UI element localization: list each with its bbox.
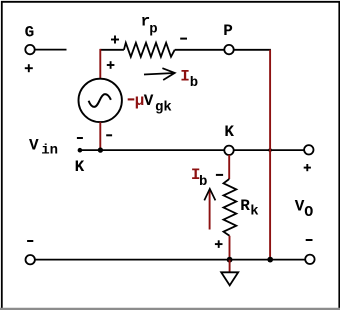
current arrow Ib (up, red shaft) — [204, 189, 215, 230]
resistor Rk zigzag — [224, 179, 237, 236]
polarity - below source — [106, 134, 112, 136]
terminal Vo+ (right top) — [304, 145, 313, 154]
wire: source bottom to cathode rail — [99, 122, 101, 150]
label Vo — [295, 198, 314, 221]
svg-text:V: V — [29, 137, 39, 155]
terminal G — [25, 45, 34, 54]
svg-text:p: p — [149, 21, 157, 37]
node: right branch junction (dot) — [267, 257, 273, 263]
dependent source -uVgk — [79, 79, 122, 122]
wire: bottom rail — [35, 259, 305, 261]
polarity - at r_p right — [180, 38, 187, 40]
svg-text:I: I — [180, 68, 190, 86]
svg-text:gk: gk — [155, 99, 172, 115]
wire: top-left corner to r_p — [100, 49, 124, 51]
node: Rk/ground junction (dot) — [227, 257, 233, 263]
terminal P — [224, 45, 233, 54]
svg-text:b: b — [199, 174, 207, 190]
label Ib (through Rk) — [191, 166, 208, 190]
polarity - above Vo- terminal — [306, 239, 313, 241]
svg-text:P: P — [223, 22, 233, 40]
wire: ground stem — [229, 260, 231, 273]
svg-text:G: G — [25, 24, 35, 42]
label -uVgk — [128, 92, 172, 115]
wire: r_p to plate terminal P — [175, 49, 225, 51]
polarity + below Vo+ terminal — [304, 164, 311, 171]
svg-text:k: k — [250, 203, 258, 219]
svg-text:R: R — [240, 197, 250, 215]
svg-text:O: O — [304, 204, 313, 221]
wire: grid stub from G — [35, 49, 67, 51]
svg-text:V: V — [295, 198, 305, 216]
polarity + above source — [107, 61, 115, 69]
svg-text:b: b — [190, 75, 198, 91]
terminal K — [224, 146, 233, 155]
label Vin — [29, 137, 58, 159]
wire: K terminal down to Rk — [228, 155, 230, 179]
svg-text:V: V — [144, 92, 154, 110]
node: rail crossing dot — [268, 148, 272, 152]
wire: Rk bottom to ground rail — [229, 236, 231, 260]
label Rk — [240, 197, 259, 219]
label r_p — [141, 13, 158, 38]
polarity + at r_p left — [111, 36, 119, 44]
svg-text:K: K — [75, 158, 85, 176]
wire: corner down to source top — [99, 49, 101, 79]
wire: P to right branch corner — [234, 49, 271, 51]
node Vin (dot) — [78, 148, 83, 153]
current arrow Ib (top) — [144, 68, 175, 80]
polarity - above bottom-left terminal — [27, 240, 33, 242]
wire: cathode rail — [80, 149, 305, 151]
svg-text:K: K — [224, 123, 234, 141]
ground symbol — [221, 272, 238, 285]
polarity + at G — [25, 64, 33, 72]
wire: right branch vertical — [269, 50, 271, 260]
polarity - at Rk top — [216, 174, 223, 176]
svg-text:in: in — [41, 143, 58, 159]
polarity - at Vin node — [77, 137, 83, 139]
resistor r_p zigzag — [124, 43, 175, 57]
terminal Vo- (bottom right) — [305, 255, 314, 264]
label Ib (top) — [180, 68, 198, 91]
node: source/cathode junction (dot) — [98, 147, 103, 152]
terminal common (bottom left) — [26, 255, 35, 264]
polarity + at Rk bottom — [215, 240, 223, 248]
